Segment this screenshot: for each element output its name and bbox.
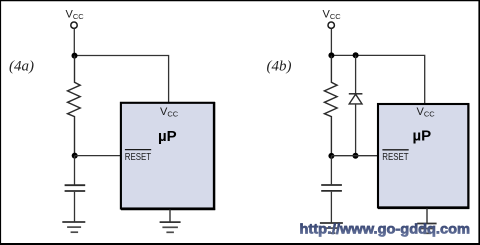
- node C junction dot (resistor branch): [328, 52, 334, 58]
- figure label (4b): [267, 59, 292, 75]
- watermark http://www.go-gddq.com: [300, 221, 471, 236]
- microprocessor U1 box: [121, 102, 215, 210]
- wire node B to capacitor C1: [74, 156, 76, 185]
- VCC terminal (4a): [71, 22, 77, 28]
- wire node A to U1 VCC pin: [75, 56, 169, 103]
- U2 pin label VCC: [417, 106, 436, 119]
- wire node C to U2 VCC pin: [331, 55, 424, 103]
- wire VCC terminal to node A: [73, 29, 75, 56]
- ground below U1: [160, 222, 181, 232]
- U2 pin label RESET (with overline): [382, 150, 409, 163]
- svg-text:(4a): (4a): [9, 59, 34, 75]
- diode D1 (cathode up to VCC): [349, 55, 363, 155]
- U1 device label uP: [158, 128, 177, 145]
- svg-text:µP: µP: [413, 127, 432, 144]
- svg-text:RESET: RESET: [382, 151, 409, 163]
- ground below U2: [417, 224, 436, 234]
- wire U1 GND pin to ground: [169, 210, 171, 222]
- svg-text:http://www.go-gddq.com: http://www.go-gddq.com: [300, 221, 471, 236]
- ground below C2: [320, 223, 343, 233]
- VCC label (4b): [323, 8, 342, 21]
- U2 device label uP: [413, 127, 432, 144]
- node F junction dot (reset node, diode branch): [353, 153, 359, 159]
- VCC terminal (4b): [328, 22, 334, 28]
- wire U2 GND pin to ground: [426, 208, 428, 223]
- resistor R1: [68, 56, 81, 156]
- svg-text:(4b): (4b): [267, 59, 292, 75]
- resistor R2: [324, 56, 337, 157]
- wire VCC terminal to node C: [330, 29, 332, 56]
- node D junction dot (diode branch): [353, 52, 359, 58]
- node A junction dot: [72, 53, 78, 59]
- svg-text:VCC: VCC: [323, 8, 342, 21]
- microprocessor U2 box: [378, 103, 469, 209]
- capacitor C1: [65, 185, 86, 191]
- wire capacitor C1 to ground: [74, 192, 76, 222]
- svg-text:µP: µP: [158, 128, 177, 145]
- svg-text:RESET: RESET: [125, 151, 152, 163]
- node E junction dot (reset node, resistor branch): [328, 153, 334, 159]
- wire capacitor C2 to ground: [330, 192, 332, 223]
- capacitor C2: [321, 185, 342, 191]
- figure label (4a): [9, 59, 34, 75]
- svg-text:VCC: VCC: [66, 8, 85, 21]
- wire reset node to RESET pin of U2: [331, 155, 378, 157]
- wire reset node to capacitor C2: [330, 156, 332, 185]
- VCC label (4a): [66, 8, 85, 21]
- wire node B to RESET pin: [75, 155, 121, 157]
- ground below C1: [62, 222, 85, 232]
- U1 pin label VCC: [160, 106, 179, 119]
- node B junction dot: [72, 153, 78, 159]
- U1 pin label RESET (with overline): [125, 150, 152, 163]
